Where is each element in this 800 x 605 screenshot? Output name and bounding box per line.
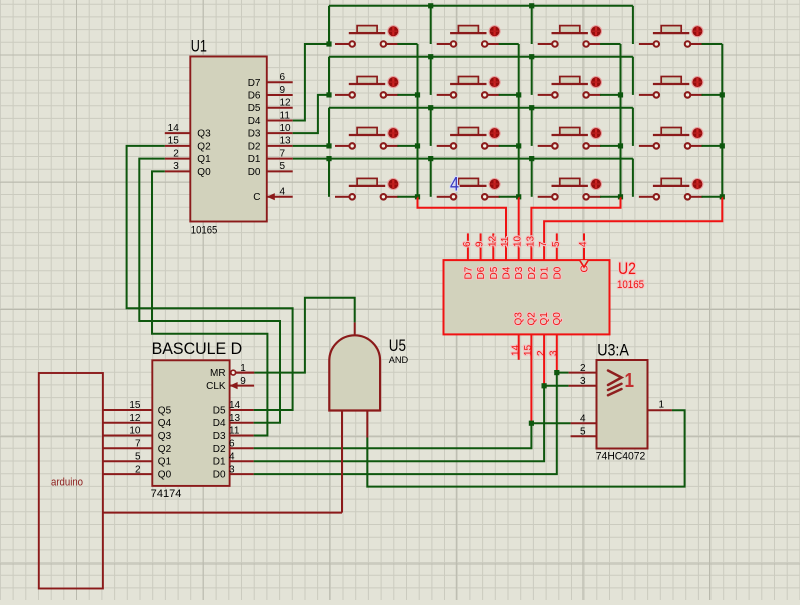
svg-text:D3: D3: [514, 266, 525, 279]
svg-text:10165: 10165: [191, 224, 218, 236]
svg-text:Q0: Q0: [158, 470, 172, 481]
svg-text:C: C: [253, 192, 260, 203]
svg-text:D4: D4: [502, 266, 513, 279]
svg-text:7: 7: [135, 439, 141, 450]
svg-text:9: 9: [475, 241, 486, 247]
svg-text:2: 2: [536, 350, 547, 356]
svg-text:U5: U5: [389, 336, 406, 355]
svg-text:11: 11: [229, 426, 240, 437]
svg-text:D0: D0: [552, 266, 563, 279]
svg-text:D2: D2: [248, 141, 261, 152]
svg-text:5: 5: [135, 451, 141, 462]
svg-text:Q5: Q5: [158, 406, 172, 417]
svg-text:Q3: Q3: [514, 312, 525, 326]
svg-text:74HC4072: 74HC4072: [596, 451, 646, 463]
svg-text:Q3: Q3: [158, 431, 172, 442]
svg-text:D5: D5: [213, 406, 226, 417]
svg-text:Q2: Q2: [197, 141, 211, 152]
svg-text:Q4: Q4: [158, 418, 172, 429]
svg-text:D2: D2: [213, 444, 226, 455]
svg-text:1: 1: [659, 400, 665, 411]
svg-text:1: 1: [625, 369, 635, 392]
svg-text:arduino: arduino: [51, 477, 83, 489]
svg-text:5: 5: [551, 241, 562, 247]
svg-text:12: 12: [280, 98, 292, 109]
svg-text:Q1: Q1: [197, 154, 211, 165]
svg-text:AND: AND: [389, 355, 409, 365]
svg-text:D3: D3: [248, 129, 261, 140]
svg-text:U2: U2: [618, 259, 636, 278]
svg-text:10: 10: [513, 235, 524, 247]
svg-text:6: 6: [280, 72, 286, 83]
svg-text:Q2: Q2: [526, 312, 537, 326]
svg-text:Q0: Q0: [197, 167, 211, 178]
svg-text:2: 2: [135, 464, 141, 475]
svg-text:BASCULE D: BASCULE D: [152, 340, 243, 358]
svg-text:U1: U1: [191, 38, 207, 56]
svg-text:5: 5: [580, 427, 586, 438]
svg-text:7: 7: [538, 241, 549, 247]
svg-text:D3: D3: [213, 431, 226, 442]
svg-text:10: 10: [129, 426, 141, 437]
svg-text:3: 3: [580, 376, 586, 387]
svg-text:Q3: Q3: [197, 129, 211, 140]
svg-text:15: 15: [129, 400, 141, 411]
svg-text:D1: D1: [248, 154, 261, 165]
svg-text:Q1: Q1: [539, 312, 550, 326]
svg-text:D1: D1: [213, 457, 226, 468]
svg-text:D2: D2: [527, 266, 538, 279]
svg-text:3: 3: [549, 350, 560, 356]
svg-text:D6: D6: [476, 266, 487, 279]
svg-text:15: 15: [168, 136, 180, 147]
svg-text:2: 2: [173, 148, 179, 159]
svg-text:14: 14: [510, 344, 521, 356]
svg-text:Q0: Q0: [552, 312, 563, 326]
svg-text:4: 4: [229, 451, 235, 462]
svg-text:14: 14: [229, 400, 241, 411]
svg-text:9: 9: [280, 85, 286, 96]
svg-text:Q1: Q1: [158, 457, 172, 468]
svg-text:D4: D4: [213, 418, 226, 429]
svg-text:4: 4: [578, 241, 589, 247]
svg-text:10165: 10165: [617, 279, 644, 291]
svg-text:12: 12: [129, 413, 141, 424]
svg-text:D1: D1: [540, 266, 551, 279]
svg-text:12: 12: [487, 235, 498, 247]
svg-text:D5: D5: [489, 266, 500, 279]
svg-text:5: 5: [280, 161, 286, 172]
svg-text:14: 14: [168, 123, 180, 134]
svg-text:15: 15: [523, 344, 534, 356]
svg-text:D7: D7: [463, 266, 474, 279]
svg-text:Q2: Q2: [158, 444, 172, 455]
svg-text:6: 6: [229, 439, 235, 450]
svg-text:10: 10: [280, 123, 292, 134]
svg-text:13: 13: [280, 136, 292, 147]
svg-text:D5: D5: [248, 103, 261, 114]
svg-text:CLK: CLK: [206, 381, 226, 392]
svg-text:D0: D0: [248, 167, 261, 178]
svg-text:D7: D7: [248, 78, 261, 89]
svg-text:6: 6: [462, 241, 473, 247]
svg-text:3: 3: [173, 161, 179, 172]
svg-text:MR: MR: [210, 368, 226, 379]
svg-text:11: 11: [500, 236, 511, 247]
svg-text:4: 4: [580, 414, 586, 425]
svg-text:D4: D4: [248, 116, 261, 127]
svg-text:2: 2: [580, 363, 586, 374]
svg-text:4: 4: [280, 187, 286, 198]
svg-text:D0: D0: [213, 470, 226, 481]
svg-text:74174: 74174: [151, 488, 182, 500]
svg-text:13: 13: [525, 235, 536, 247]
svg-text:7: 7: [280, 148, 286, 159]
svg-text:3: 3: [229, 464, 235, 475]
svg-text:11: 11: [280, 110, 291, 121]
svg-text:D6: D6: [248, 91, 261, 102]
svg-text:13: 13: [229, 413, 241, 424]
svg-text:U3:A: U3:A: [597, 341, 629, 359]
svg-text:4: 4: [450, 175, 459, 196]
